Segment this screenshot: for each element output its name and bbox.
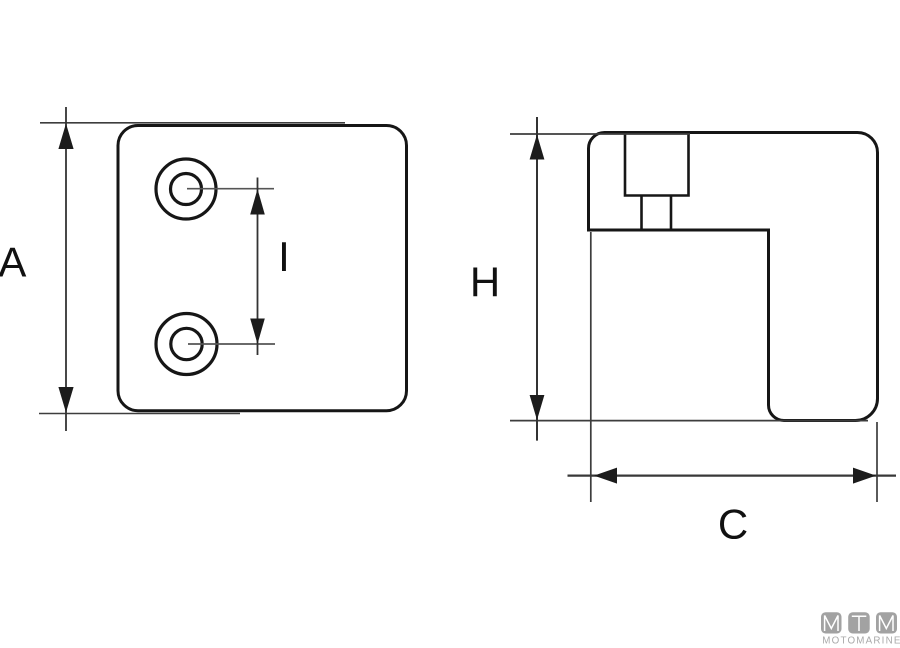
dim C line: [568, 474, 897, 476]
dim I arrow down: [250, 319, 265, 345]
svg-text:I: I: [278, 233, 290, 280]
svg-text:H: H: [470, 259, 500, 306]
MTM logo letter M2: [880, 616, 893, 632]
MTM logo letter M1: [825, 616, 838, 632]
dim A arrow up: [58, 124, 73, 150]
dim H arrow up: [530, 135, 545, 160]
dim H top extension line: [510, 133, 690, 135]
dim A top extension line: [40, 122, 345, 124]
dim A line: [65, 107, 67, 431]
dim H line: [536, 117, 538, 441]
MTM logo square 2: [848, 612, 870, 633]
svg-text:MOTOMARINE: MOTOMARINE: [822, 635, 900, 646]
hole top outer: [156, 159, 216, 219]
center line from bottom hole: [188, 343, 275, 345]
dim A arrow down: [58, 387, 73, 413]
hole bottom inner: [171, 328, 202, 359]
MTM logo letter T: [852, 616, 867, 631]
svg-text:A: A: [0, 239, 26, 286]
dim C arrow right: [853, 468, 876, 484]
hole top inner: [171, 174, 202, 205]
hole bottom outer: [156, 314, 217, 375]
svg-text:C: C: [718, 501, 748, 548]
MTM logo square 1: [821, 612, 842, 633]
dim A bottom extension line: [39, 413, 240, 415]
dim C right extension line: [876, 422, 878, 502]
plug narrow stem left: [640, 196, 643, 231]
plug wide section: [625, 133, 689, 196]
dim C arrow left: [594, 468, 617, 484]
center line from top hole: [187, 188, 274, 190]
plug narrow stem right: [670, 196, 673, 231]
right view: side profile outline: [589, 133, 878, 421]
dim I arrow up: [250, 189, 265, 215]
dim I line: [257, 178, 259, 356]
left view: anode plate outline: [118, 126, 407, 411]
dim H bottom extension line: [510, 420, 868, 422]
dim C left extension line: [590, 232, 592, 502]
dim H arrow down: [530, 395, 545, 420]
MTM logo square 3: [876, 612, 897, 633]
